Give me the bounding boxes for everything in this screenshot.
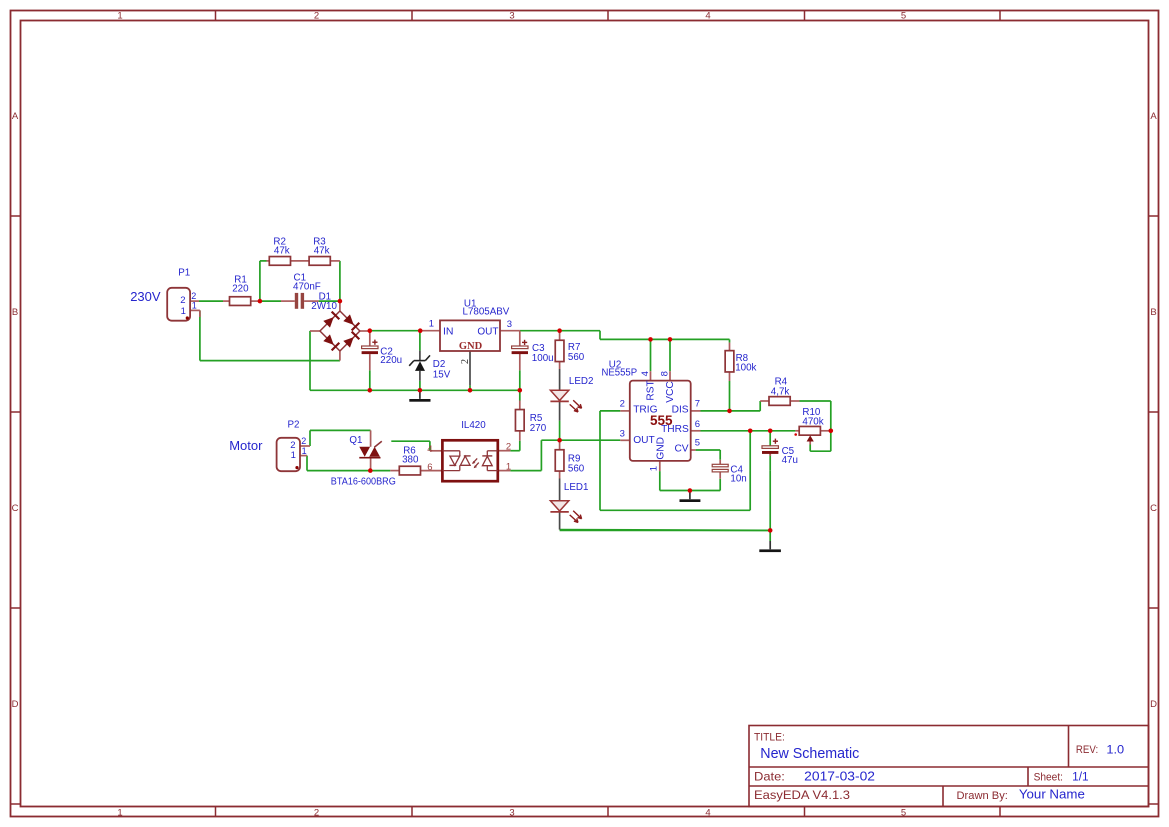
svg-text:IL420: IL420 <box>461 420 486 431</box>
svg-text:470k: 470k <box>802 417 823 428</box>
svg-text:B: B <box>12 307 18 318</box>
svg-text:6: 6 <box>695 419 700 430</box>
svg-text:LED2: LED2 <box>569 376 594 387</box>
svg-text:THRS: THRS <box>661 424 689 435</box>
svg-text:220u: 220u <box>380 355 402 366</box>
svg-text:A: A <box>12 111 19 122</box>
svg-text:EasyEDA V4.1.3: EasyEDA V4.1.3 <box>754 788 850 802</box>
svg-text:1: 1 <box>117 808 122 819</box>
svg-text:3: 3 <box>507 319 512 330</box>
svg-text:380: 380 <box>402 455 419 466</box>
svg-text:6: 6 <box>427 462 432 473</box>
svg-text:7: 7 <box>695 399 700 410</box>
svg-text:2: 2 <box>180 295 185 306</box>
svg-text:D2: D2 <box>433 359 446 370</box>
svg-text:OUT: OUT <box>633 435 655 446</box>
svg-text:CV: CV <box>674 444 688 455</box>
svg-text:15V: 15V <box>433 369 451 380</box>
svg-text:1.0: 1.0 <box>1106 743 1124 757</box>
svg-text:Drawn By:: Drawn By: <box>957 790 1008 802</box>
svg-text:REV:: REV: <box>1076 744 1098 756</box>
svg-text:2: 2 <box>314 11 319 22</box>
svg-text:Q1: Q1 <box>349 435 362 446</box>
svg-text:4: 4 <box>640 371 651 376</box>
svg-text:2017-03-02: 2017-03-02 <box>804 770 875 784</box>
svg-text:3: 3 <box>509 808 514 819</box>
svg-text:DIS: DIS <box>672 404 689 415</box>
svg-text:NE555P: NE555P <box>602 367 638 378</box>
svg-text:New Schematic: New Schematic <box>760 745 859 762</box>
svg-text:GND: GND <box>656 437 667 460</box>
svg-text:VCC: VCC <box>665 381 676 403</box>
svg-text:2: 2 <box>460 359 471 364</box>
svg-text:1: 1 <box>192 301 197 311</box>
svg-text:B: B <box>1150 307 1156 318</box>
svg-text:2W10: 2W10 <box>311 301 337 312</box>
svg-text:1: 1 <box>302 446 307 456</box>
svg-text:5: 5 <box>901 808 906 819</box>
svg-text:2: 2 <box>314 808 319 819</box>
svg-text:C: C <box>1150 503 1157 514</box>
svg-text:47k: 47k <box>274 245 290 256</box>
svg-text:3: 3 <box>509 11 514 22</box>
svg-text:10n: 10n <box>730 473 746 484</box>
svg-text:1: 1 <box>506 461 511 472</box>
svg-text:TITLE:: TITLE: <box>754 731 785 743</box>
svg-text:47k: 47k <box>314 245 330 256</box>
svg-text:OUT: OUT <box>477 326 498 337</box>
svg-text:1: 1 <box>291 450 296 461</box>
svg-text:5: 5 <box>901 11 906 22</box>
svg-text:560: 560 <box>568 463 585 474</box>
svg-text:100u: 100u <box>532 353 554 364</box>
svg-text:2: 2 <box>191 291 196 301</box>
svg-text:1/1: 1/1 <box>1072 770 1089 784</box>
svg-text:8: 8 <box>659 371 670 376</box>
svg-text:L7805ABV: L7805ABV <box>463 306 510 317</box>
svg-text:230V: 230V <box>130 289 161 304</box>
svg-text:GND: GND <box>459 341 483 352</box>
svg-text:1: 1 <box>648 466 659 471</box>
svg-text:100k: 100k <box>735 362 756 373</box>
svg-text:P1: P1 <box>178 267 190 278</box>
svg-text:560: 560 <box>568 352 585 363</box>
svg-text:5: 5 <box>695 437 700 448</box>
svg-text:TRIG: TRIG <box>633 404 657 415</box>
svg-text:Motor: Motor <box>229 438 263 453</box>
svg-text:D: D <box>1150 699 1157 710</box>
svg-text:LED1: LED1 <box>564 482 589 493</box>
svg-text:4: 4 <box>705 808 710 819</box>
svg-text:1: 1 <box>181 306 186 317</box>
svg-text:4: 4 <box>705 11 710 22</box>
svg-text:270: 270 <box>530 423 547 434</box>
svg-text:A: A <box>1150 111 1157 122</box>
svg-text:RST: RST <box>645 380 656 400</box>
svg-text:P2: P2 <box>288 419 300 430</box>
svg-text:47u: 47u <box>782 455 798 466</box>
svg-text:1: 1 <box>429 319 434 330</box>
svg-text:1: 1 <box>117 11 122 22</box>
svg-text:220: 220 <box>232 284 249 295</box>
svg-text:4: 4 <box>427 444 432 455</box>
svg-text:Sheet:: Sheet: <box>1034 772 1063 784</box>
svg-text:2: 2 <box>620 399 625 410</box>
svg-text:470nF: 470nF <box>293 281 321 292</box>
svg-text:C: C <box>12 503 19 514</box>
svg-text:3: 3 <box>620 428 625 439</box>
svg-text:IN: IN <box>443 325 454 337</box>
svg-text:D: D <box>12 699 19 710</box>
svg-text:2: 2 <box>506 441 511 452</box>
svg-text:BTA16-600BRG: BTA16-600BRG <box>331 477 396 488</box>
svg-text:4,7k: 4,7k <box>771 387 790 398</box>
svg-text:2: 2 <box>301 436 306 446</box>
svg-text:Date:: Date: <box>754 770 785 784</box>
svg-text:Your Name: Your Name <box>1019 787 1085 802</box>
